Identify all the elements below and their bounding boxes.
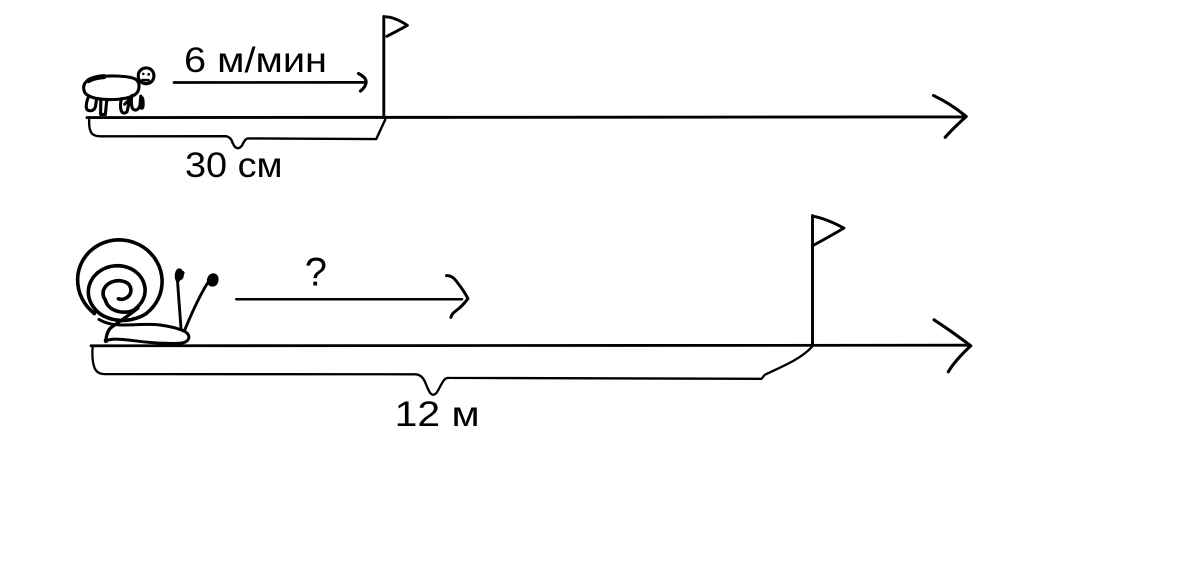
snail left antenna tip <box>175 268 185 282</box>
svg-text:12 м: 12 м <box>395 394 480 434</box>
turtle front leg <box>131 95 140 110</box>
turtle eyes <box>142 73 150 76</box>
flag 1 pennant <box>384 17 407 36</box>
svg-text:?: ? <box>305 251 327 295</box>
snail foot <box>99 320 189 344</box>
arrow 2 shaft <box>236 298 462 301</box>
snail right antenna tip <box>207 273 219 286</box>
turtle shell top-left thick edge <box>89 77 105 81</box>
snail shell spiral <box>78 240 163 321</box>
brace for 30 cm <box>89 120 385 148</box>
turtle front foot oval <box>140 98 143 109</box>
speed arrow head <box>359 74 367 92</box>
snail left antenna <box>177 278 181 329</box>
svg-text:6 м/мин: 6 м/мин <box>184 40 327 80</box>
brace for 12 m <box>92 346 812 395</box>
ground line 1 arrowhead <box>934 96 967 138</box>
snail <box>78 240 219 344</box>
snail tail tip blob <box>104 338 109 343</box>
turtle <box>84 68 154 114</box>
ground line 2 (snail track) <box>91 344 968 347</box>
flag 1 pole <box>382 17 385 118</box>
turtle back leg <box>86 97 96 111</box>
snail body diagonal to tail <box>106 308 138 341</box>
turtle leg 3 <box>121 99 131 113</box>
ground line 1 (turtle track) <box>87 115 963 119</box>
snail right antenna <box>185 282 209 331</box>
flag 2 pole <box>811 216 814 345</box>
flag 2 pennant <box>812 216 844 246</box>
turtle head <box>138 68 154 84</box>
arrow 2 head <box>447 276 468 318</box>
turtle leg 2 <box>101 99 107 114</box>
turtle mouth <box>142 79 148 82</box>
speed arrow shaft <box>174 81 364 84</box>
ground line 2 arrowhead <box>934 320 971 372</box>
turtle shell <box>84 76 139 100</box>
svg-text:30 см: 30 см <box>185 145 283 185</box>
